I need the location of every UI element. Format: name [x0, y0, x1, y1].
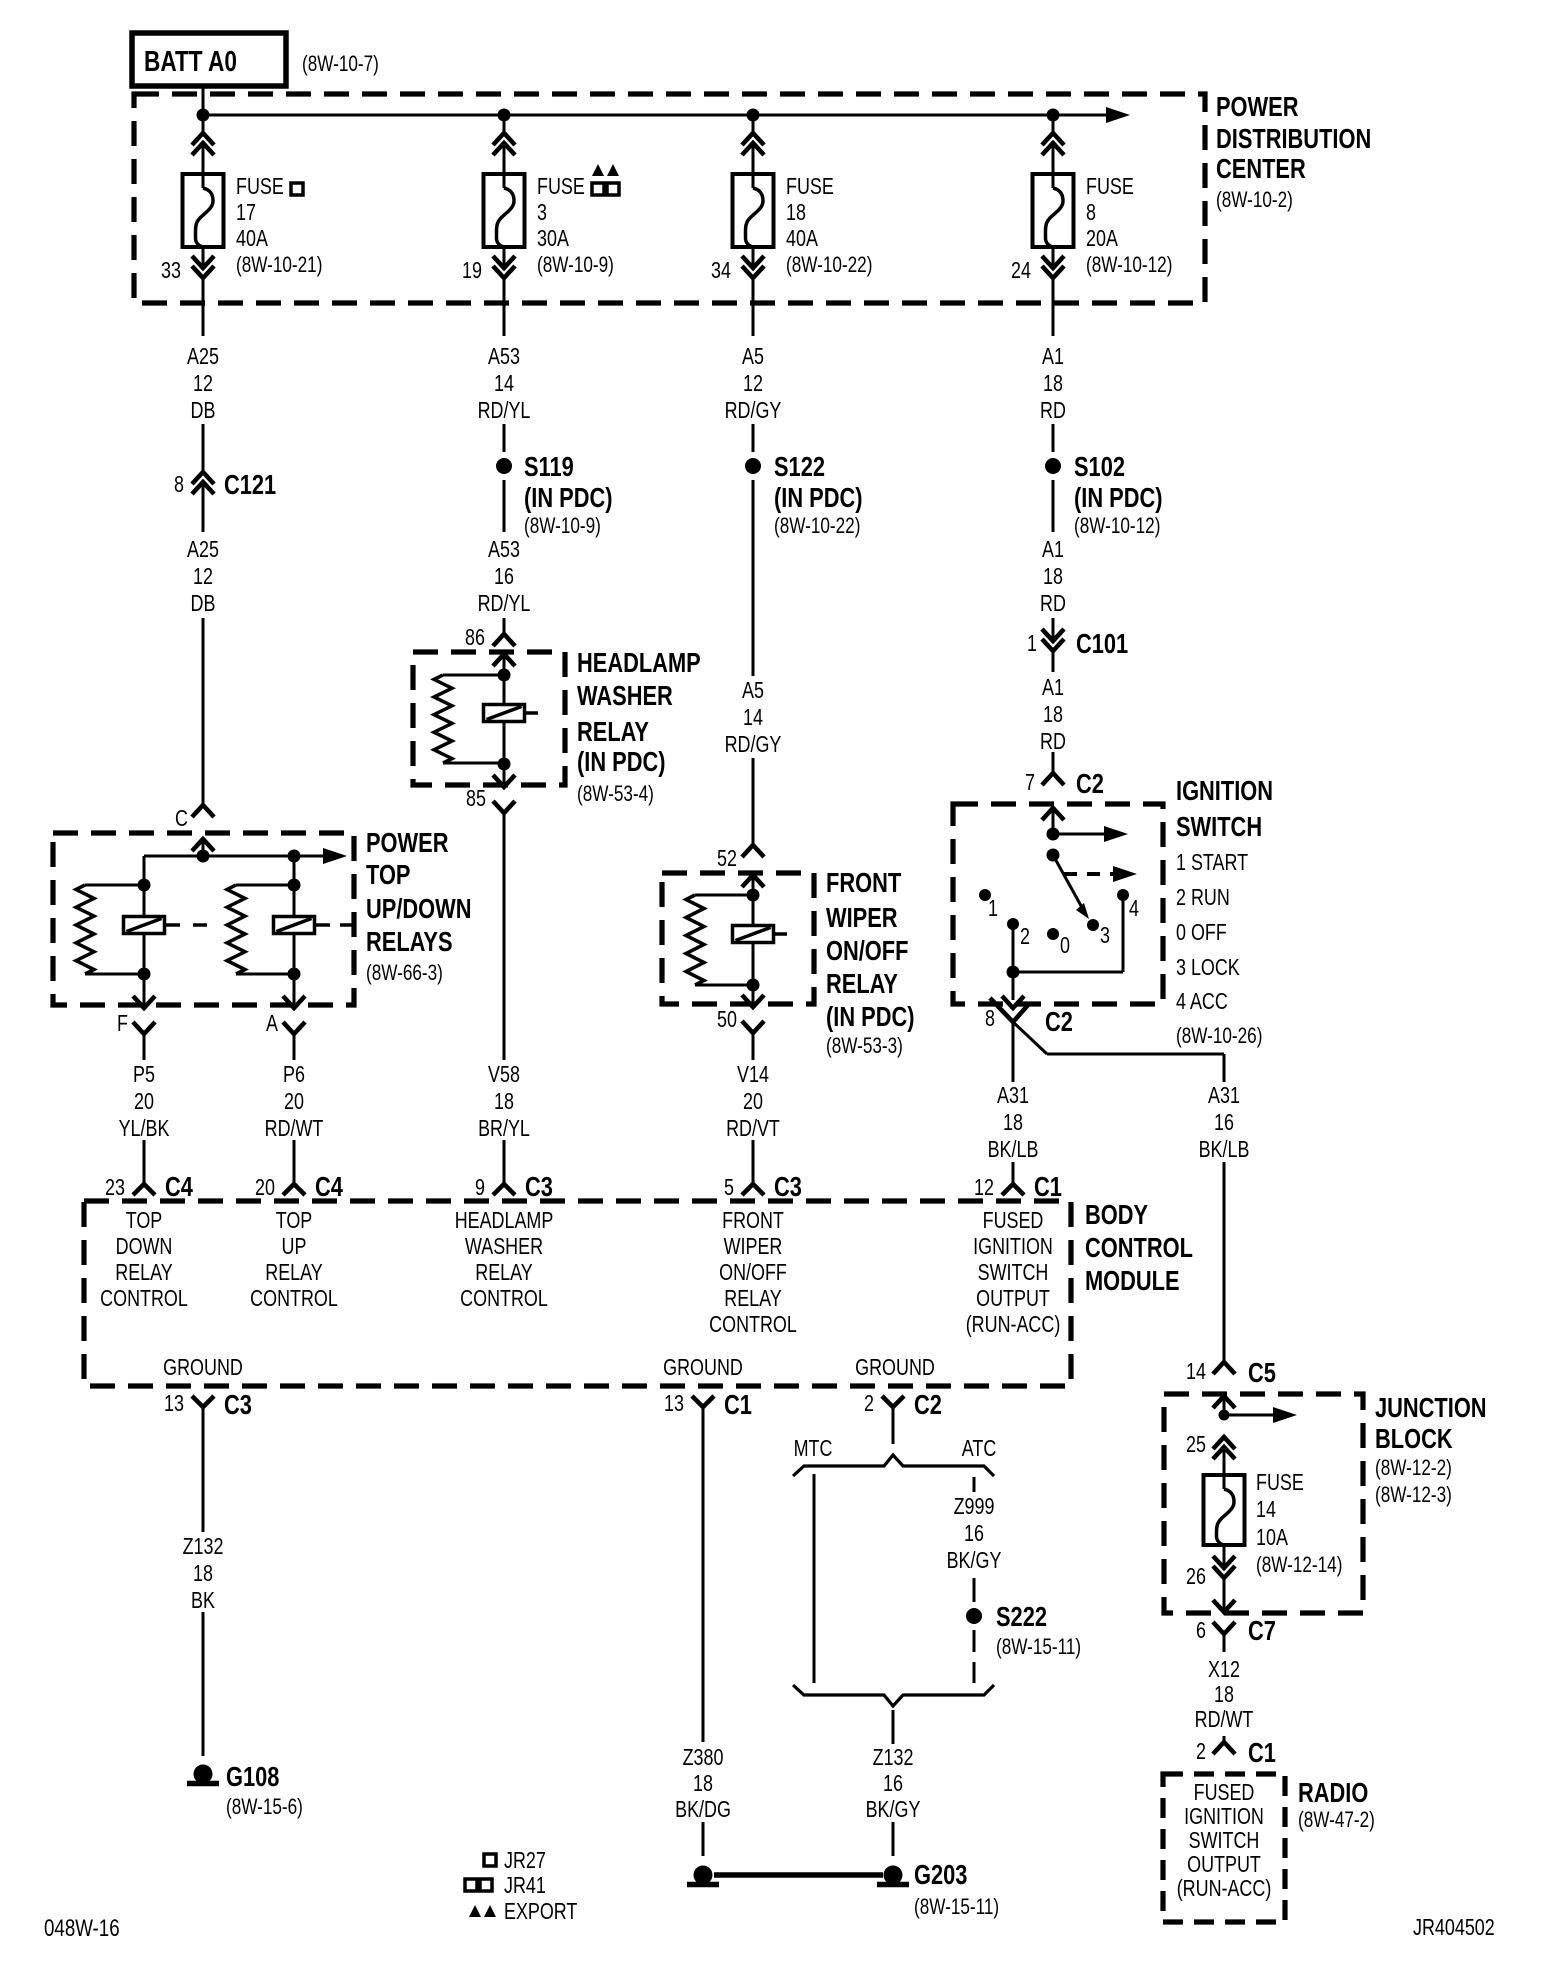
svg-text:ON/OFF: ON/OFF	[719, 1260, 787, 1286]
ground G108	[194, 1765, 213, 1784]
BCM ground pin 13 C1	[692, 1396, 714, 1407]
MTC/ATC bottom brace	[793, 1685, 994, 1706]
svg-text:3: 3	[1100, 923, 1110, 949]
svg-text:GROUND: GROUND	[855, 1355, 935, 1381]
svg-text:RD: RD	[1040, 729, 1066, 755]
svg-text:19: 19	[462, 258, 482, 284]
ground tie line	[714, 1872, 883, 1878]
svg-text:RD: RD	[1040, 398, 1066, 424]
svg-text:FUSE: FUSE	[1256, 1470, 1304, 1496]
svg-text:20: 20	[134, 1089, 154, 1115]
BCM pin 5 C3 connector	[742, 1184, 764, 1195]
svg-text:CONTROL: CONTROL	[460, 1286, 548, 1312]
branch wire to junction block	[1013, 1022, 1047, 1054]
svg-text:(8W-10-22): (8W-10-22)	[774, 514, 860, 539]
svg-text:9: 9	[475, 1175, 485, 1201]
svg-text:(8W-66-3): (8W-66-3)	[366, 961, 443, 986]
svg-text:SWITCH: SWITCH	[1176, 811, 1262, 842]
body control module box	[84, 1201, 1071, 1386]
svg-text:RELAY: RELAY	[724, 1286, 782, 1312]
svg-text:C3: C3	[224, 1389, 252, 1420]
fuse F18 top connector	[752, 115, 755, 133]
svg-text:Z380: Z380	[683, 1745, 724, 1771]
svg-text:RD/GY: RD/GY	[725, 398, 782, 424]
junction block box	[1164, 1394, 1363, 1613]
svg-text:C: C	[175, 806, 188, 832]
legend JR41	[465, 1879, 477, 1891]
svg-text:RELAY: RELAY	[115, 1260, 173, 1286]
svg-text:30A: 30A	[537, 226, 569, 252]
svg-text:WIPER: WIPER	[826, 902, 898, 933]
svg-text:RELAY: RELAY	[577, 716, 649, 747]
svg-text:EXPORT: EXPORT	[504, 1899, 578, 1925]
svg-text:S122: S122	[774, 451, 825, 482]
wire A31 16 to junction block	[1223, 1162, 1226, 1362]
svg-text:(RUN-ACC): (RUN-ACC)	[966, 1312, 1061, 1338]
pin 50 connector	[752, 985, 755, 1007]
svg-text:(8W-53-3): (8W-53-3)	[826, 1034, 903, 1059]
svg-text:GROUND: GROUND	[163, 1355, 243, 1381]
svg-text:UP/DOWN: UP/DOWN	[366, 893, 471, 924]
svg-text:RD: RD	[1040, 591, 1066, 617]
svg-text:A53: A53	[488, 344, 520, 370]
pin F connector	[143, 974, 146, 1008]
bus node at x=203	[197, 109, 210, 122]
svg-text:BATT A0: BATT A0	[144, 44, 237, 77]
svg-text:BK/GY: BK/GY	[866, 1797, 921, 1823]
svg-text:OUTPUT: OUTPUT	[976, 1286, 1050, 1312]
svg-text:C7: C7	[1248, 1615, 1276, 1646]
svg-text:16: 16	[1214, 1110, 1234, 1136]
wire pin 8 down to BCM pin 12	[1012, 1022, 1015, 1082]
svg-text:BK/DG: BK/DG	[675, 1797, 731, 1823]
svg-text:C4: C4	[165, 1171, 193, 1202]
fuse 14 in junction block	[1204, 1475, 1245, 1545]
radio pin 2 connector C1	[1213, 1742, 1235, 1754]
svg-text:G203: G203	[914, 1859, 967, 1890]
junction block pin 25 connector	[1213, 1437, 1235, 1449]
svg-text:JR404502: JR404502	[1413, 1915, 1495, 1941]
svg-text:Z132: Z132	[183, 1534, 224, 1560]
svg-text:V14: V14	[737, 1062, 769, 1088]
splice S102	[1052, 424, 1055, 452]
svg-text:CONTROL: CONTROL	[709, 1312, 797, 1338]
wire P6 to BCM	[293, 1140, 296, 1184]
wire Z132 to G108	[202, 1612, 205, 1756]
svg-text:34: 34	[711, 258, 731, 284]
svg-text:RADIO: RADIO	[1298, 1777, 1368, 1808]
ignition switch contact 4	[1117, 889, 1129, 901]
svg-text:1 START: 1 START	[1176, 850, 1248, 876]
svg-text:26: 26	[1186, 1564, 1206, 1590]
svg-text:C1: C1	[1248, 1737, 1276, 1768]
svg-text:BLOCK: BLOCK	[1375, 1423, 1453, 1454]
svg-text:40A: 40A	[236, 226, 268, 252]
ATC wire (dashed)	[973, 1477, 976, 1492]
power top up/down relays box	[53, 833, 354, 1005]
svg-text:8: 8	[1086, 200, 1096, 226]
wire V14 to BCM	[752, 1140, 755, 1184]
svg-text:C1: C1	[1034, 1171, 1062, 1202]
headlamp washer relay coil circuit	[498, 669, 511, 682]
svg-text:(8W-10-21): (8W-10-21)	[236, 253, 322, 278]
svg-text:(8W-10-12): (8W-10-12)	[1086, 253, 1172, 278]
svg-text:FUSED: FUSED	[1194, 1780, 1255, 1806]
pin 85 connector	[503, 764, 506, 787]
svg-text:G108: G108	[226, 1761, 279, 1792]
svg-text:10A: 10A	[1256, 1525, 1288, 1551]
svg-text:TOP: TOP	[126, 1208, 163, 1234]
svg-text:FUSE: FUSE	[236, 174, 284, 200]
ground G203	[884, 1866, 903, 1885]
pin 6 connector C7	[1213, 1622, 1235, 1634]
svg-text:RD/GY: RD/GY	[725, 732, 782, 758]
wire Z380 to G203	[702, 1822, 705, 1856]
ignition switch mechanical link dashed arrow	[1064, 872, 1113, 876]
svg-text:JUNCTION: JUNCTION	[1375, 1392, 1487, 1423]
svg-text:TOP: TOP	[276, 1208, 313, 1234]
svg-text:RELAY: RELAY	[475, 1260, 533, 1286]
svg-text:(IN PDC): (IN PDC)	[774, 482, 863, 513]
svg-text:C121: C121	[224, 469, 276, 500]
fuse F17	[183, 174, 224, 247]
pin 7 connector C2	[1042, 773, 1064, 785]
pin C connector	[192, 805, 214, 817]
svg-text:20: 20	[284, 1089, 304, 1115]
svg-text:IGNITION: IGNITION	[1184, 1804, 1264, 1830]
splice S122	[752, 424, 755, 452]
top up relay (right)	[293, 856, 296, 885]
svg-text:12: 12	[193, 564, 213, 590]
svg-text:MODULE: MODULE	[1085, 1265, 1180, 1296]
svg-text:18: 18	[1043, 371, 1063, 397]
BCM pin 9 C3 connector	[493, 1184, 515, 1195]
wire contact 4 to output	[1122, 895, 1125, 972]
ground G203 (left foot)	[694, 1866, 713, 1885]
svg-text:A: A	[266, 1011, 278, 1037]
svg-text:(8W-10-2): (8W-10-2)	[1216, 188, 1293, 213]
pin 14 connector C5	[1213, 1362, 1235, 1374]
svg-text:HEADLAMP: HEADLAMP	[577, 647, 701, 678]
svg-text:048W-16: 048W-16	[44, 1915, 120, 1942]
junction block pin 26 connector	[1223, 1545, 1226, 1568]
svg-text:16: 16	[964, 1521, 984, 1547]
svg-text:BK: BK	[191, 1588, 215, 1614]
svg-text:20: 20	[255, 1175, 275, 1201]
svg-text:C2: C2	[1045, 1006, 1073, 1037]
svg-text:RELAY: RELAY	[265, 1260, 323, 1286]
headlamp washer relay box	[413, 652, 565, 785]
BCM pin 23 C4 connector	[133, 1184, 155, 1195]
svg-text:A31: A31	[1208, 1083, 1240, 1109]
svg-text:24: 24	[1011, 258, 1031, 284]
svg-text:18: 18	[193, 1561, 213, 1587]
ignition switch contact 0	[1047, 928, 1059, 940]
bus arrowhead	[1106, 107, 1130, 123]
power distribution center box	[134, 94, 1205, 303]
svg-text:ATC: ATC	[962, 1436, 997, 1462]
svg-text:(IN PDC): (IN PDC)	[577, 746, 666, 777]
wire contact 2 to output	[1012, 924, 1015, 972]
marker square for fuse 17	[291, 183, 303, 195]
svg-text:POWER: POWER	[1216, 91, 1298, 122]
fuse F8 bottom connector pin 24	[1052, 247, 1055, 268]
svg-text:25: 25	[1186, 1432, 1206, 1458]
MTC/ATC top brace	[793, 1455, 994, 1476]
svg-text:CONTROL: CONTROL	[100, 1286, 188, 1312]
svg-text:(8W-53-4): (8W-53-4)	[577, 782, 654, 807]
BCM pin 12 C1 connector	[1002, 1184, 1024, 1195]
svg-text:2: 2	[1020, 924, 1030, 950]
svg-text:4 ACC: 4 ACC	[1176, 989, 1228, 1015]
fuse F8	[1033, 174, 1074, 247]
fuse F18	[733, 174, 774, 247]
marker squares and triangles for fuse 3	[592, 183, 604, 195]
svg-text:18: 18	[1043, 564, 1063, 590]
svg-text:DB: DB	[191, 591, 216, 617]
svg-text:CONTROL: CONTROL	[250, 1286, 338, 1312]
BCM ground pin 2 C2	[882, 1396, 904, 1407]
svg-text:50: 50	[717, 1007, 737, 1033]
top down relay (left)	[143, 856, 146, 885]
wire P5 to BCM	[143, 1140, 146, 1184]
svg-text:YL/BK: YL/BK	[119, 1116, 170, 1142]
pin 86 connector	[493, 634, 515, 646]
svg-text:14: 14	[743, 705, 763, 731]
svg-text:BK/LB: BK/LB	[1199, 1137, 1250, 1163]
ignition switch rotor arm	[1053, 855, 1085, 913]
svg-text:S102: S102	[1074, 451, 1125, 482]
svg-text:18: 18	[1214, 1682, 1234, 1708]
svg-text:C3: C3	[525, 1171, 553, 1202]
svg-text:WIPER: WIPER	[724, 1234, 783, 1260]
svg-text:RD/YL: RD/YL	[478, 591, 531, 617]
svg-text:14: 14	[494, 371, 514, 397]
svg-text:1: 1	[988, 896, 998, 922]
fuse F3 bottom connector pin 19	[503, 247, 506, 268]
svg-text:20A: 20A	[1086, 226, 1118, 252]
svg-text:6: 6	[1196, 1618, 1206, 1644]
ignition switch common node	[1047, 828, 1060, 841]
svg-text:C2: C2	[914, 1389, 942, 1420]
svg-text:A25: A25	[187, 537, 219, 563]
svg-text:2 RUN: 2 RUN	[1176, 885, 1230, 911]
svg-text:(RUN-ACC): (RUN-ACC)	[1177, 1876, 1272, 1902]
splice S119	[503, 424, 506, 452]
MTC wire	[813, 1474, 816, 1683]
svg-text:CONTROL: CONTROL	[1085, 1232, 1193, 1263]
svg-text:IGNITION: IGNITION	[1176, 775, 1273, 806]
svg-text:SWITCH: SWITCH	[1189, 1828, 1260, 1854]
svg-text:12: 12	[743, 371, 763, 397]
svg-text:MTC: MTC	[794, 1436, 833, 1462]
svg-text:16: 16	[494, 564, 514, 590]
battery feed box BATT A0	[132, 33, 286, 86]
svg-text:(8W-47-2): (8W-47-2)	[1298, 1808, 1375, 1833]
svg-text:WASHER: WASHER	[577, 680, 673, 711]
svg-text:(8W-10-9): (8W-10-9)	[524, 514, 601, 539]
svg-text:S119: S119	[524, 451, 574, 482]
wire Z132 to G203	[892, 1822, 895, 1856]
svg-text:52: 52	[717, 846, 737, 872]
svg-text:8: 8	[985, 1006, 995, 1032]
legend EXPORT	[469, 1905, 481, 1917]
svg-text:16: 16	[883, 1771, 903, 1797]
svg-text:RD/WT: RD/WT	[1195, 1707, 1254, 1733]
svg-text:(8W-12-3): (8W-12-3)	[1375, 1483, 1452, 1508]
svg-text:RD/YL: RD/YL	[478, 398, 531, 424]
svg-text:SWITCH: SWITCH	[978, 1260, 1049, 1286]
svg-text:1: 1	[1027, 631, 1037, 657]
svg-text:40A: 40A	[786, 226, 818, 252]
svg-text:WASHER: WASHER	[465, 1234, 543, 1260]
svg-text:3: 3	[537, 200, 547, 226]
radio box	[1163, 1774, 1285, 1922]
svg-text:C2: C2	[1076, 768, 1104, 799]
svg-text:IGNITION: IGNITION	[973, 1234, 1053, 1260]
svg-text:RELAY: RELAY	[826, 968, 898, 999]
legend JR27	[484, 1854, 496, 1866]
wire X12 to radio	[1223, 1736, 1226, 1742]
bus node at x=1053	[1047, 109, 1060, 122]
svg-text:13: 13	[664, 1391, 684, 1417]
wire to headlamp washer relay pin 86	[503, 618, 506, 634]
svg-text:12: 12	[974, 1175, 994, 1201]
svg-text:A25: A25	[187, 344, 219, 370]
svg-text:(8W-10-9): (8W-10-9)	[537, 253, 614, 278]
svg-text:DOWN: DOWN	[116, 1234, 173, 1260]
svg-text:7: 7	[1025, 770, 1035, 796]
svg-text:CENTER: CENTER	[1216, 153, 1306, 184]
splice S222	[966, 1608, 982, 1624]
wire to power top relays pin C	[202, 618, 205, 805]
svg-text:2: 2	[864, 1391, 874, 1417]
pin 8 connector C2	[1012, 972, 1015, 1000]
svg-text:14: 14	[1256, 1497, 1276, 1523]
svg-text:FUSE: FUSE	[537, 174, 585, 200]
svg-text:14: 14	[1186, 1359, 1206, 1385]
fuse F8 top connector	[1052, 115, 1055, 133]
svg-text:5: 5	[724, 1175, 734, 1201]
svg-text:17: 17	[236, 200, 256, 226]
fuse F3	[484, 174, 525, 247]
svg-text:A1: A1	[1042, 344, 1064, 370]
svg-text:3 LOCK: 3 LOCK	[1176, 955, 1240, 981]
svg-text:UP: UP	[282, 1234, 307, 1260]
svg-text:Z999: Z999	[954, 1494, 995, 1520]
svg-text:P6: P6	[283, 1062, 305, 1088]
wire V58 to BCM	[503, 1140, 506, 1184]
front wiper relay coil circuit	[747, 889, 760, 902]
svg-text:(8W-15-11): (8W-15-11)	[996, 1635, 1081, 1660]
svg-text:(8W-15-6): (8W-15-6)	[226, 1795, 303, 1820]
svg-text:(8W-12-2): (8W-12-2)	[1375, 1456, 1452, 1481]
connector C101	[1052, 618, 1055, 641]
svg-text:DISTRIBUTION: DISTRIBUTION	[1216, 123, 1371, 154]
front wiper relay box	[662, 873, 814, 1004]
BCM pin 20 C4 connector	[283, 1184, 305, 1195]
svg-text:OUTPUT: OUTPUT	[1187, 1852, 1261, 1878]
svg-text:86: 86	[465, 625, 485, 651]
svg-text:C101: C101	[1076, 628, 1128, 659]
svg-text:A5: A5	[742, 344, 764, 370]
svg-text:A1: A1	[1042, 675, 1064, 701]
svg-text:C5: C5	[1248, 1357, 1276, 1388]
svg-text:18: 18	[786, 200, 806, 226]
ignition switch contact 2	[1007, 918, 1019, 930]
fuse F17 top connector	[202, 115, 205, 133]
svg-text:A31: A31	[997, 1083, 1029, 1109]
svg-text:A1: A1	[1042, 537, 1064, 563]
pin A connector	[293, 974, 296, 1008]
svg-text:BR/YL: BR/YL	[478, 1116, 530, 1142]
svg-text:13: 13	[164, 1391, 184, 1417]
svg-text:18: 18	[1003, 1110, 1023, 1136]
svg-text:P5: P5	[133, 1062, 155, 1088]
svg-text:V58: V58	[488, 1062, 520, 1088]
svg-text:ON/OFF: ON/OFF	[826, 935, 908, 966]
svg-text:18: 18	[494, 1089, 514, 1115]
wire to ignition switch pin 7	[1052, 752, 1055, 773]
svg-text:F: F	[117, 1011, 128, 1037]
svg-text:0: 0	[1060, 933, 1070, 959]
bus node at x=753	[747, 109, 760, 122]
svg-text:BK/GY: BK/GY	[947, 1548, 1002, 1574]
svg-text:(8W-10-7): (8W-10-7)	[302, 52, 379, 77]
svg-text:23: 23	[105, 1175, 125, 1201]
svg-text:A53: A53	[488, 537, 520, 563]
svg-text:Z132: Z132	[873, 1745, 914, 1771]
svg-text:RELAYS: RELAYS	[366, 926, 453, 957]
svg-text:RD/VT: RD/VT	[726, 1116, 780, 1142]
svg-text:GROUND: GROUND	[663, 1355, 743, 1381]
wire to front wiper relay pin 52	[752, 758, 755, 845]
BCM ground pin 13 C3	[192, 1396, 214, 1407]
power top relays internal bus	[144, 855, 325, 858]
svg-text:C3: C3	[774, 1171, 802, 1202]
svg-text:(8W-12-14): (8W-12-14)	[1256, 1553, 1342, 1578]
svg-text:33: 33	[161, 258, 181, 284]
pin 52 connector	[742, 845, 764, 857]
svg-text:DB: DB	[191, 398, 216, 424]
ignition switch box	[953, 804, 1163, 1004]
svg-text:C1: C1	[724, 1389, 752, 1420]
svg-text:12: 12	[193, 371, 213, 397]
svg-text:8: 8	[174, 472, 184, 498]
svg-text:(8W-15-11): (8W-15-11)	[914, 1895, 999, 1920]
svg-text:20: 20	[743, 1089, 763, 1115]
svg-text:(IN PDC): (IN PDC)	[826, 1001, 915, 1032]
svg-text:TOP: TOP	[366, 859, 410, 890]
fuse F18 bottom connector pin 34	[752, 247, 755, 268]
svg-text:BK/LB: BK/LB	[988, 1137, 1039, 1163]
ignition switch contact 1	[979, 889, 991, 901]
svg-text:FUSE: FUSE	[1086, 174, 1134, 200]
svg-text:(8W-10-22): (8W-10-22)	[786, 253, 872, 278]
svg-text:FRONT: FRONT	[722, 1208, 784, 1234]
svg-text:S222: S222	[996, 1601, 1047, 1632]
svg-text:2: 2	[1196, 1739, 1206, 1765]
connector C121	[202, 424, 205, 472]
svg-text:C4: C4	[315, 1171, 343, 1202]
junction block internal node	[1219, 1410, 1230, 1421]
svg-text:X12: X12	[1208, 1657, 1240, 1683]
svg-text:0 OFF: 0 OFF	[1176, 920, 1227, 946]
svg-text:JR41: JR41	[504, 1873, 546, 1899]
svg-text:FRONT: FRONT	[826, 867, 902, 898]
fuse F3 top connector	[503, 115, 506, 133]
svg-text:FUSE: FUSE	[786, 174, 834, 200]
